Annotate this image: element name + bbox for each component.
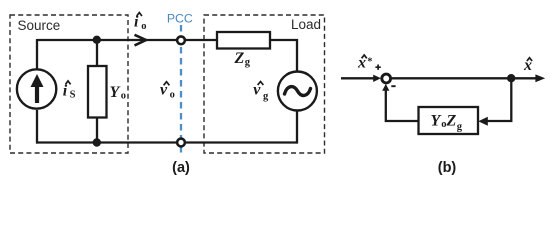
label vo — [160, 82, 175, 101]
svg-text:g: g — [457, 121, 463, 132]
wire feedback left — [386, 87, 419, 121]
voltage source vg — [278, 72, 317, 111]
svg-text:o: o — [141, 21, 146, 32]
terminal PCC bottom — [177, 139, 185, 147]
svg-text:Z: Z — [446, 113, 457, 130]
label Load — [291, 17, 321, 32]
svg-text:(b): (b) — [438, 160, 457, 176]
svg-text:o: o — [170, 89, 175, 100]
wire current source bottom stub — [36, 110, 38, 144]
svg-text:Y: Y — [110, 84, 121, 101]
wire bottom horizontal — [36, 141, 297, 143]
svg-text:v: v — [160, 82, 168, 99]
source dashed box — [10, 15, 128, 153]
wire Zg to vg — [270, 40, 297, 72]
svg-text:g: g — [245, 57, 251, 68]
minus sign — [391, 85, 395, 87]
label iS — [63, 81, 76, 101]
output arrow — [535, 74, 545, 82]
arrow io on top wire — [135, 35, 147, 46]
wire current source top stub — [36, 39, 38, 69]
svg-text:x: x — [357, 54, 366, 71]
svg-text:(a): (a) — [172, 160, 190, 176]
svg-text:Source: Source — [18, 18, 61, 33]
label vg — [253, 81, 269, 102]
label Source — [18, 18, 61, 33]
label (a) — [172, 160, 190, 176]
svg-text:i: i — [134, 14, 139, 31]
block YoZg — [419, 107, 479, 134]
output wire b — [392, 77, 541, 79]
svg-text:o: o — [121, 91, 126, 102]
node feedback tap — [507, 74, 515, 82]
admittance Yo box — [88, 66, 107, 118]
svg-text:*: * — [367, 57, 372, 68]
label x-hat — [523, 57, 532, 74]
wire Yo bottom stub — [96, 117, 98, 143]
label x-ref — [357, 54, 373, 71]
svg-text:Z: Z — [234, 50, 245, 67]
node bottom junction — [93, 138, 101, 146]
wire top horizontal — [37, 39, 217, 41]
svg-text:Load: Load — [291, 17, 321, 32]
wire feedback right down — [482, 78, 511, 121]
input wire b — [341, 77, 377, 79]
label io — [134, 13, 146, 32]
svg-text:v: v — [253, 81, 261, 98]
label Zg — [234, 50, 251, 68]
impedance Zg box — [217, 32, 270, 49]
plus sign — [375, 65, 380, 70]
svg-text:i: i — [63, 82, 68, 99]
arrow into summing junction from below — [382, 84, 389, 91]
current source IS — [17, 69, 56, 108]
label (b) — [438, 160, 457, 176]
summing junction — [382, 74, 391, 83]
svg-text:Y: Y — [431, 113, 442, 130]
label PCC — [167, 12, 193, 26]
terminal PCC top — [177, 36, 185, 44]
arrow into block — [478, 117, 488, 126]
svg-text:PCC: PCC — [167, 12, 193, 26]
label Yo — [110, 84, 127, 102]
PCC dashed line — [180, 25, 182, 157]
load dashed box — [204, 15, 325, 153]
wire Yo top stub — [96, 40, 98, 67]
arrow into summing junction — [373, 75, 381, 82]
wire vg bottom stub — [296, 110, 298, 144]
svg-text:g: g — [263, 91, 269, 102]
svg-text:x: x — [523, 57, 532, 74]
label YoZg — [431, 113, 463, 133]
node top junction — [93, 36, 101, 44]
svg-text:S: S — [70, 90, 76, 101]
